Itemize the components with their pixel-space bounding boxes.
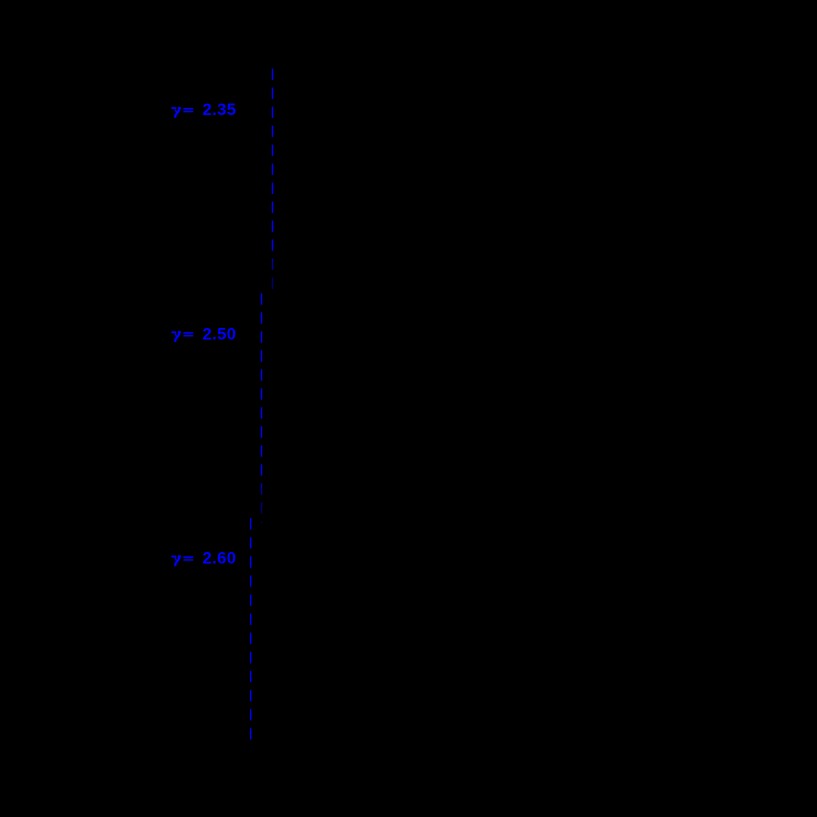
dashed vline gamma=2.60: [250, 518, 252, 739]
label gamma=2.60: [171, 549, 236, 568]
label gamma=2.35: [171, 100, 236, 119]
dashed vline gamma=2.50: [261, 293, 263, 523]
dashed vline gamma=2.35: [271, 69, 273, 291]
svg-text:2.35: 2.35: [202, 100, 236, 119]
svg-text:2.50: 2.50: [202, 324, 236, 343]
label gamma=2.50: [171, 324, 236, 343]
svg-text:2.60: 2.60: [202, 549, 236, 568]
